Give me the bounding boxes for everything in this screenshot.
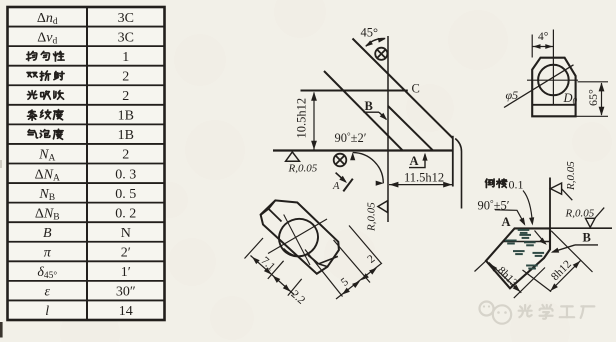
svg-text:A: A bbox=[502, 215, 511, 229]
svg-text:2: 2 bbox=[122, 69, 129, 84]
svg-text:A: A bbox=[332, 181, 340, 192]
svg-text:N: N bbox=[121, 226, 131, 241]
svg-text:1′: 1′ bbox=[121, 265, 131, 280]
svg-text:B: B bbox=[43, 226, 52, 241]
svg-text:45°: 45° bbox=[361, 26, 379, 40]
svg-text:65°: 65° bbox=[586, 89, 600, 106]
svg-text:0.1: 0.1 bbox=[509, 178, 524, 192]
svg-text:1B: 1B bbox=[118, 128, 134, 143]
svg-text:30″: 30″ bbox=[116, 285, 136, 300]
svg-text:4°: 4° bbox=[538, 31, 549, 43]
svg-text:1: 1 bbox=[122, 50, 129, 65]
svg-text:3C: 3C bbox=[118, 30, 134, 45]
svg-text:A: A bbox=[410, 154, 419, 168]
svg-text:ε: ε bbox=[44, 285, 50, 300]
svg-text:C: C bbox=[412, 82, 420, 96]
svg-text:2: 2 bbox=[122, 89, 129, 104]
svg-text:R,0.05: R,0.05 bbox=[288, 163, 318, 175]
svg-text:14: 14 bbox=[119, 304, 133, 319]
svg-text:π: π bbox=[44, 246, 52, 261]
svg-text:10.5h12: 10.5h12 bbox=[295, 98, 309, 139]
svg-text:0. 5: 0. 5 bbox=[115, 187, 136, 202]
svg-text:B: B bbox=[583, 231, 591, 245]
svg-text:l: l bbox=[45, 304, 49, 319]
svg-text:R,0.05: R,0.05 bbox=[565, 161, 577, 191]
svg-text:0. 3: 0. 3 bbox=[115, 167, 136, 182]
svg-text:0. 2: 0. 2 bbox=[115, 206, 136, 221]
svg-text:R,0.05: R,0.05 bbox=[366, 202, 378, 232]
svg-text:90°±2′: 90°±2′ bbox=[335, 131, 367, 145]
svg-text:11.5h12: 11.5h12 bbox=[404, 171, 444, 185]
svg-text:2: 2 bbox=[122, 148, 129, 163]
svg-text:B: B bbox=[365, 99, 373, 113]
svg-text:φ5: φ5 bbox=[506, 88, 519, 102]
svg-text:1B: 1B bbox=[118, 109, 134, 124]
svg-text:2′: 2′ bbox=[121, 246, 131, 261]
svg-text:3C: 3C bbox=[118, 11, 134, 26]
svg-text:R,0.05: R,0.05 bbox=[565, 208, 595, 220]
